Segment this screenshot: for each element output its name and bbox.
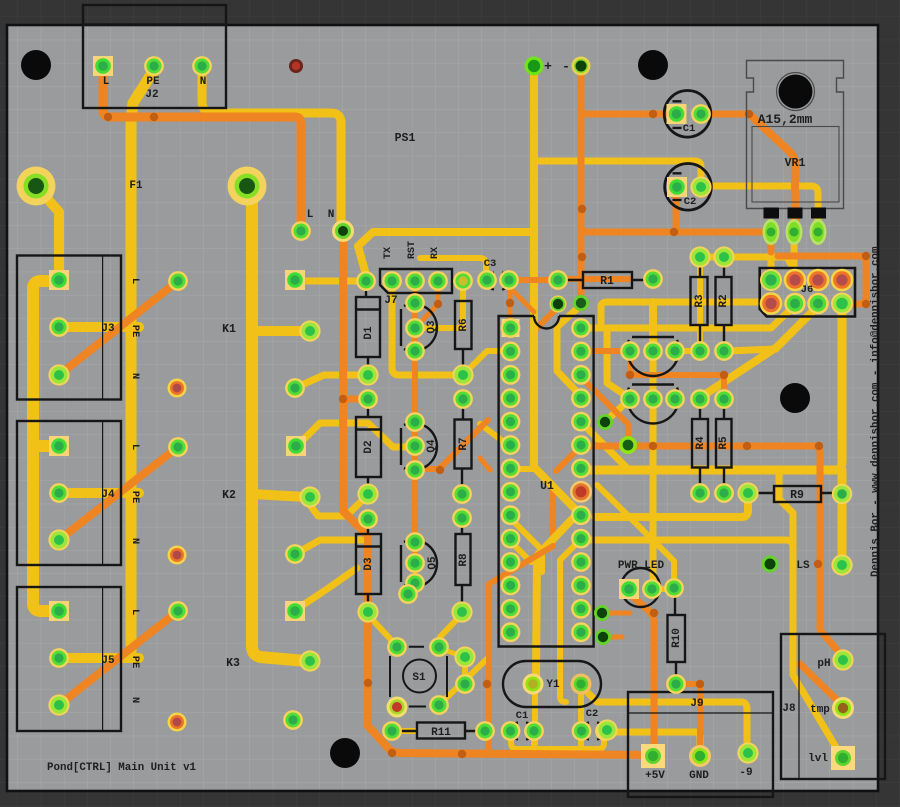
- resistor R6 outline: [455, 301, 472, 369]
- wire bus to J9 GND: [605, 732, 700, 750]
- svg-text:LS: LS: [796, 560, 810, 572]
- transistor Q3 outline: [401, 304, 437, 351]
- wire C3 diag: [509, 286, 510, 322]
- wire Y1 pads drop: [578, 688, 584, 727]
- svg-text:N: N: [129, 697, 141, 703]
- wire PE bus from J2 pad PE: [131, 70, 154, 657]
- wire C1 to VR1 in: [709, 111, 747, 118]
- svg-text:RST: RST: [407, 241, 418, 259]
- via top dark red pad: [289, 59, 303, 73]
- wire bottom bus of caps: [511, 734, 604, 749]
- svg-text:C3: C3: [484, 258, 497, 270]
- wire rail to LS pad: [838, 470, 847, 561]
- svg-text:N: N: [200, 76, 207, 88]
- wire R9 under-body jog: [779, 472, 793, 546]
- fuse F1 pads: [17, 167, 267, 206]
- wire to R10 top: [597, 485, 674, 583]
- svg-text:Q5: Q5: [427, 556, 439, 570]
- capacitor C2 outline: [665, 164, 712, 211]
- wire minus to C1: [581, 110, 668, 114]
- wire U1 pin diag: [556, 446, 581, 471]
- trace junction dots: [104, 110, 870, 758]
- wire Q2 base down to LED: [650, 399, 657, 585]
- wire U1 pin 541 diag: [511, 542, 531, 562]
- diode D3 pads: [357, 509, 378, 623]
- wire C2 plus to VR1 out: [708, 186, 818, 227]
- wire PE stub J5: [59, 653, 139, 663]
- wire branch to C2 plus: [534, 161, 701, 180]
- resistor R2 outline: [716, 261, 732, 345]
- transistor Q5 outline: [401, 540, 437, 587]
- wire L bus stub J4: [34, 440, 59, 452]
- svg-text:R9: R9: [790, 489, 804, 502]
- wire J4 N diagonal: [59, 447, 178, 540]
- wire tmp diagonal: [800, 664, 843, 706]
- wire F1 pad to J3 pin L: [38, 188, 59, 274]
- connector J2 outline: [83, 5, 226, 108]
- wire VR1 left pad loop: [771, 238, 866, 304]
- wire S1 to via diag: [440, 657, 489, 704]
- svg-text:A15,2mm: A15,2mm: [758, 112, 813, 127]
- wire K2 square pad to Q4: [296, 423, 413, 447]
- svg-text:D1: D1: [363, 326, 375, 340]
- svg-text:J8: J8: [782, 703, 796, 715]
- svg-text:K2: K2: [222, 489, 236, 502]
- resistor R4 outline: [692, 404, 708, 487]
- svg-text:L: L: [129, 444, 141, 450]
- svg-text:R11: R11: [431, 727, 451, 739]
- capacitor C2 bottom outline: [582, 723, 605, 740]
- resistor R10 outline: [668, 596, 686, 678]
- wire J7 RST column: [412, 287, 418, 583]
- wire cap stub2: [578, 734, 584, 749]
- wire D2 cathode link: [310, 495, 368, 516]
- relay K2 pads: [285, 436, 321, 564]
- wire GND bus y470: [586, 308, 842, 470]
- wire PE stub J3: [59, 322, 139, 332]
- capacitor C1 pads: [667, 104, 711, 124]
- VR1 pin pads black: [764, 208, 827, 219]
- svg-text:R8: R8: [458, 553, 470, 567]
- wire U1 pin left diag4: [510, 466, 533, 472]
- svg-text:D3: D3: [363, 557, 375, 571]
- connector J9 pads: [641, 742, 759, 768]
- svg-text:J2: J2: [145, 89, 158, 101]
- wire PE stub J4: [59, 488, 139, 498]
- svg-text:C2: C2: [586, 708, 599, 720]
- wire K1 coil stub: [252, 326, 306, 336]
- wire rail Z to Y1 pad: [536, 513, 578, 678]
- svg-text:J3: J3: [101, 323, 115, 335]
- wire via to U1 pin jog: [557, 305, 581, 395]
- wire U1 pin to Q1 bus: [586, 302, 766, 328]
- node LS pads: [762, 554, 853, 575]
- svg-text:C1: C1: [516, 710, 529, 722]
- wire via stub b: [605, 635, 622, 640]
- svg-text:Q3: Q3: [426, 320, 438, 334]
- wire U1 pin to via 628: [581, 377, 628, 443]
- svg-text:L: L: [103, 76, 110, 88]
- svg-text:N: N: [328, 209, 335, 221]
- connector J3 pads: [48, 270, 69, 386]
- wire R4 R5 feed: [630, 356, 724, 394]
- svg-text:Q4: Q4: [426, 439, 438, 453]
- wire Q1 base to Q2 base: [650, 351, 657, 399]
- wire R6 to U1 pin2: [467, 351, 506, 371]
- svg-text:J9: J9: [690, 698, 703, 710]
- svg-text:pH: pH: [817, 658, 830, 670]
- svg-text:K3: K3: [226, 657, 240, 670]
- svg-text:C1: C1: [683, 123, 696, 135]
- power supply PS1 pads: [291, 57, 590, 243]
- svg-text:lvl: lvl: [808, 753, 828, 765]
- wire D3 to S1: [368, 615, 395, 644]
- via bottom: [596, 719, 617, 740]
- wire Q4 emitter jog: [422, 420, 488, 469]
- wire U1 to Q1 collector: [585, 348, 624, 354]
- wire L bus J3-J4-J5: [33, 281, 59, 611]
- resistor R4 pads: [690, 389, 710, 503]
- mounting hole mid-right: [780, 383, 810, 413]
- svg-text:VR1: VR1: [785, 157, 806, 170]
- resistor R11 outline: [400, 723, 479, 739]
- wire L from J2 to PS1: [103, 68, 301, 224]
- svg-text:J7: J7: [384, 295, 397, 307]
- wire top bus to D1 anode: [358, 232, 534, 275]
- resistor R7 outline: [455, 405, 472, 488]
- wire J3 N diagonal: [59, 281, 178, 375]
- resistor R1 outline: [566, 272, 646, 288]
- connector J3 outline: [17, 256, 121, 400]
- resistor R2 pads: [713, 246, 734, 361]
- wire J5 N diagonal: [59, 611, 178, 705]
- wire J6 to R2 and R4: [704, 306, 818, 395]
- svg-text:R6: R6: [458, 318, 470, 331]
- svg-text:+5V: +5V: [645, 770, 665, 782]
- wire R1 under body: [513, 277, 556, 283]
- resistor R7 pads: [452, 389, 473, 504]
- svg-text:K1: K1: [222, 323, 236, 336]
- wire into Q2 collector: [607, 330, 628, 397]
- resistor R8 pads: [451, 508, 472, 623]
- mounting hole top-left: [21, 50, 51, 80]
- svg-text:R7: R7: [458, 437, 470, 450]
- wire VR1 dot to mid pad: [749, 114, 795, 225]
- relay K1 pads: [285, 270, 321, 398]
- svg-text:R3: R3: [694, 294, 706, 308]
- connector J4 outline: [17, 421, 121, 565]
- wire Q1 emitter to R3 pad: [678, 348, 697, 354]
- wire Y1 left pad down: [532, 688, 538, 744]
- transistor Q1 outline: [627, 337, 679, 376]
- svg-text:C2: C2: [684, 196, 697, 208]
- resistor R3 pads: [689, 246, 710, 361]
- wire J6 bus stub R2: [728, 349, 776, 351]
- connector J9 outline: [628, 692, 773, 797]
- diode D3 outline: [356, 524, 381, 606]
- svg-text:PE: PE: [129, 491, 141, 504]
- wire Q3 pads diag: [415, 281, 438, 328]
- svg-text:R2: R2: [718, 294, 730, 307]
- LED PWR outline: [621, 568, 660, 607]
- svg-text:J5: J5: [101, 655, 115, 667]
- svg-text:PE: PE: [129, 656, 141, 669]
- wire K2 coil stub: [252, 494, 306, 497]
- wire y540 bus to J8 lvl: [586, 540, 840, 754]
- pushbutton S1 pads: [387, 637, 449, 717]
- capacitor C3 pads: [477, 270, 519, 290]
- voltage regulator VR1 outline: [747, 61, 844, 209]
- regulator VR1 pads: [763, 219, 827, 245]
- diode D2 pads: [357, 389, 378, 505]
- capacitor C2 pads: [667, 176, 712, 197]
- resistor R9 outline: [756, 486, 836, 502]
- wire orange under U1 upper: [534, 307, 558, 546]
- svg-text:-: -: [562, 59, 570, 74]
- wire D1 cathode to K1 pad: [295, 375, 368, 388]
- svg-text:RX: RX: [430, 247, 441, 259]
- wire minus bus to VR1 left: [581, 226, 764, 232]
- IC U1 pads left column: [501, 318, 521, 642]
- transistor Q2 pads: [620, 389, 685, 409]
- connector J8 outline: [781, 634, 885, 779]
- svg-text:PWR LED: PWR LED: [618, 560, 665, 572]
- svg-text:L: L: [129, 609, 141, 615]
- wire U1 pins left diags: [480, 424, 508, 445]
- capacitor C1 outline: [664, 91, 711, 138]
- svg-text:R4: R4: [695, 436, 707, 450]
- resistor R8 outline: [456, 524, 471, 606]
- svg-text:U1: U1: [540, 480, 554, 493]
- wire C3 pad diag to rail: [509, 287, 534, 312]
- svg-text:Pond[CTRL] Main Unit v1: Pond[CTRL] Main Unit v1: [47, 762, 197, 774]
- svg-text:N: N: [129, 373, 141, 379]
- resistor R1 pads: [548, 269, 663, 290]
- svg-text:Dennis Bor - www.dennisbor.com: Dennis Bor - www.dennisbor.com - info@de…: [870, 246, 882, 577]
- resistor R11 pads: [382, 721, 495, 741]
- wire J7 TX to R6 pad: [392, 283, 461, 375]
- svg-text:PS1: PS1: [395, 132, 416, 145]
- VR1 heatsink hole: [779, 75, 813, 109]
- svg-text:Y1: Y1: [546, 679, 560, 691]
- wire branch down to Q1 base: [649, 302, 657, 347]
- wire via pair link: [462, 660, 468, 681]
- connector J8 pads: [831, 649, 855, 770]
- connector J5 pads: [48, 601, 69, 716]
- svg-text:R5: R5: [718, 436, 730, 450]
- transistor Q3 pads: [405, 293, 425, 361]
- wire N from J2 to PS1: [202, 68, 341, 224]
- wire R6 top trace: [420, 258, 486, 274]
- resistor R9 pads: [737, 482, 852, 504]
- wire +5V rail from PS1 +: [534, 70, 578, 512]
- svg-text:PE: PE: [146, 76, 160, 88]
- svg-text:+: +: [544, 59, 552, 74]
- crystal Y1 pads: [523, 674, 592, 695]
- wire Q2 to via: [606, 399, 630, 421]
- IC U1 outline DIP-28: [499, 316, 594, 647]
- svg-text:N: N: [129, 538, 141, 544]
- wire orange under U1 lower: [489, 546, 553, 748]
- wire R3-R2 tops to J6: [700, 257, 795, 272]
- wire VR1 mid pad down: [791, 239, 798, 270]
- svg-text:F1: F1: [129, 180, 143, 192]
- wire R3 top through body: [697, 261, 703, 345]
- resistor R3 outline: [691, 261, 708, 345]
- via near Q5: [398, 584, 418, 604]
- wire U1 pin diag to GND bus: [581, 422, 628, 469]
- transistor Q4 outline: [401, 423, 437, 470]
- svg-text:TX: TX: [383, 247, 394, 259]
- connector J5 outline: [17, 587, 121, 731]
- capacitor C3 outline: [487, 273, 510, 290]
- wire C2 minus drop: [673, 196, 680, 229]
- svg-text:GND: GND: [689, 770, 709, 782]
- IC U1 pads right column: [570, 318, 592, 642]
- svg-text:tmp: tmp: [810, 704, 830, 716]
- diode D1 pads: [356, 271, 379, 386]
- vias near S1: [454, 646, 475, 693]
- resistor R5 pads: [714, 389, 734, 503]
- wire Y1 right to J9 -9: [581, 686, 747, 748]
- svg-text:R10: R10: [671, 628, 683, 648]
- svg-text:L: L: [129, 278, 141, 284]
- svg-text:J4: J4: [101, 489, 115, 501]
- wire K coil bus from F1 pad: [249, 188, 306, 661]
- wire R1 body pass: [560, 276, 630, 282]
- wire orange bus y446 to pH: [586, 446, 843, 657]
- transistor Q4 pads: [405, 412, 425, 480]
- connector J2 pads L PE N: [93, 56, 212, 76]
- svg-text:D2: D2: [363, 440, 375, 453]
- wire orange left U1 stub: [480, 458, 490, 470]
- connector J6 pads: [760, 269, 854, 315]
- mounting hole top-right: [638, 50, 668, 80]
- wire Q5 link: [409, 583, 415, 592]
- wire U1 pin 518 diag: [511, 519, 542, 572]
- crystal Y1 outline: [503, 661, 601, 707]
- wire LED to +5V rail: [630, 594, 654, 748]
- svg-text:-9: -9: [739, 767, 752, 779]
- wire Q3 base to R6: [424, 287, 463, 328]
- wire K3 square pad diagonal: [295, 568, 357, 611]
- svg-text:S1: S1: [412, 672, 426, 684]
- LED PWR pads: [619, 579, 662, 599]
- header J7 pads TX RST RX: [382, 271, 448, 291]
- svg-text:J6: J6: [801, 284, 814, 296]
- transistor Q1 pads: [620, 341, 685, 361]
- transistor Q2 outline: [627, 385, 679, 424]
- capacitor C1 C2 bottom pads: [501, 721, 615, 741]
- wire U1 pin jog down: [560, 542, 578, 702]
- resistor R6 pads: [452, 271, 473, 386]
- wire S1 pad to via: [441, 649, 462, 656]
- vias near U1: [550, 295, 638, 645]
- wire K1 square pad to D1: [295, 278, 366, 285]
- wire LED to R10 pad: [652, 586, 674, 592]
- wire R11 left pad: [393, 728, 415, 734]
- wire J6 pin1 drop: [768, 251, 775, 273]
- resistor R10 pads: [664, 578, 686, 694]
- transistor Q5 pads: [405, 532, 425, 593]
- wire y517 bus to R9 pad: [595, 497, 748, 517]
- svg-text:R1: R1: [600, 275, 614, 288]
- connector J4 pads: [48, 436, 69, 551]
- wire R8 to S1: [440, 614, 462, 645]
- mounting hole bottom-left: [330, 738, 360, 768]
- wire U1 pin to J6 bus: [586, 307, 793, 328]
- connector J6 outline: [760, 268, 855, 317]
- svg-text:L: L: [307, 209, 314, 221]
- svg-text:PE: PE: [129, 325, 141, 338]
- diode D2 outline: [356, 405, 381, 488]
- wire cap stub: [531, 734, 537, 749]
- wire R10 pad to GND join: [681, 684, 700, 744]
- capacitor C1 bottom outline: [511, 723, 534, 740]
- wire via stub a: [605, 611, 630, 616]
- pushbutton S1 outline: [390, 647, 447, 707]
- diode D1 outline: [356, 291, 380, 369]
- wire main orange bus x343: [343, 240, 645, 755]
- relay K3 pads: [283, 601, 321, 730]
- node N pads of J3 J4 J5: [168, 271, 188, 621]
- wire K2 pad to D3 area: [295, 540, 366, 554]
- wire stub to D2 anode: [343, 396, 362, 403]
- bottom-layer red pads: [168, 379, 187, 732]
- resistor R5 outline: [716, 404, 732, 487]
- wire minus rail down: [578, 70, 585, 297]
- header J7 outline: [380, 269, 452, 293]
